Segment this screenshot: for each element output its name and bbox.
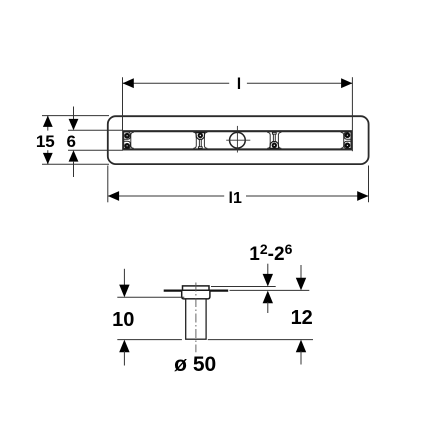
grate frame bbox=[123, 131, 351, 149]
dim l line bbox=[123, 82, 230, 84]
dim l arrow left bbox=[123, 78, 134, 88]
dim 12 arrow up bbox=[296, 340, 306, 353]
dim l extension left bbox=[122, 77, 124, 130]
dim l extension right bbox=[351, 77, 353, 151]
dim 10 leader top bbox=[123, 269, 125, 286]
screw pocket left bottom bbox=[123, 141, 130, 148]
screw left bottom bbox=[124, 143, 130, 149]
screw right bottom bbox=[345, 143, 351, 149]
dim 12-26 leader bottom bbox=[267, 302, 269, 313]
dim 10 leader bottom bbox=[123, 351, 125, 366]
grate holder right bbox=[270, 132, 279, 148]
dim 15 arrow down bbox=[43, 153, 53, 164]
dim 15 extension top bbox=[42, 115, 109, 117]
svg-text:15: 15 bbox=[36, 132, 55, 151]
dim 6 arrow down bbox=[69, 119, 79, 130]
dim l arrow right bbox=[341, 78, 352, 88]
dim 6 leader bottom bbox=[73, 161, 75, 177]
screw pocket right top bbox=[344, 132, 351, 139]
dim l1 extension left bbox=[107, 166, 109, 203]
dim l1 extension right bbox=[368, 166, 370, 203]
drain centerline horizontal bbox=[226, 139, 250, 141]
svg-text:10: 10 bbox=[112, 309, 134, 331]
drain centerline vertical bbox=[236, 126, 238, 153]
dim 10 arrow down bbox=[119, 285, 129, 298]
dim 12 leader bottom bbox=[300, 351, 302, 365]
svg-text:12: 12 bbox=[291, 307, 313, 329]
dim 12-26 arrow up bbox=[263, 291, 273, 304]
screw pocket right bottom bbox=[344, 141, 351, 148]
floor line left (section) bbox=[164, 290, 182, 292]
collar bbox=[182, 290, 210, 299]
slot end curve after holder 1 bbox=[204, 132, 207, 148]
dim 6 extension top bbox=[68, 129, 123, 131]
flange bbox=[183, 286, 210, 290]
grate holder left bbox=[196, 133, 205, 149]
screw pocket left top bbox=[123, 132, 130, 139]
bottom reference line right bbox=[208, 339, 313, 341]
svg-text:l1: l1 bbox=[229, 190, 242, 207]
slot end curve left bbox=[131, 132, 134, 148]
svg-text:6: 6 bbox=[66, 132, 75, 151]
slot end curve right bbox=[341, 132, 344, 148]
pipe bbox=[186, 299, 206, 339]
channel outer body (plan view) bbox=[108, 116, 369, 164]
bottom reference line left bbox=[117, 339, 182, 341]
drain outlet circle bbox=[230, 132, 246, 148]
svg-text:l: l bbox=[237, 76, 241, 93]
dim 10 arrow up bbox=[119, 340, 129, 353]
slot end curve after holder 2 bbox=[278, 132, 281, 148]
dim 12 arrow down bbox=[296, 278, 306, 291]
floor level extension thin bbox=[230, 289, 310, 291]
dim 6 leader top bbox=[73, 107, 75, 120]
dim 15 line bbox=[47, 116, 49, 131]
dim 6 extension bottom bbox=[68, 149, 123, 151]
dim 15 extension bottom bbox=[42, 163, 109, 165]
floor line right (section) bbox=[209, 290, 228, 292]
slot end curve before holder 1 bbox=[193, 132, 196, 148]
dim 15 arrow up bbox=[43, 116, 53, 127]
dim 12 leader top bbox=[300, 265, 302, 279]
screw right top bbox=[345, 132, 351, 138]
dim l1 arrow left bbox=[108, 191, 119, 201]
svg-text:ø 50: ø 50 bbox=[174, 353, 216, 376]
dim l1 line bbox=[108, 195, 224, 197]
dim 6 arrow up bbox=[69, 150, 79, 161]
screw left top bbox=[124, 133, 130, 139]
pipe centerline bbox=[195, 283, 197, 353]
flange top level extension bbox=[211, 286, 276, 288]
dim 10 extension top bbox=[117, 296, 184, 298]
dim 12-26 arrow down bbox=[263, 274, 273, 287]
slot end curve before holder 2 bbox=[267, 132, 270, 148]
dim 12-26 leader top bbox=[267, 264, 269, 276]
dim l1 arrow right bbox=[357, 191, 368, 201]
